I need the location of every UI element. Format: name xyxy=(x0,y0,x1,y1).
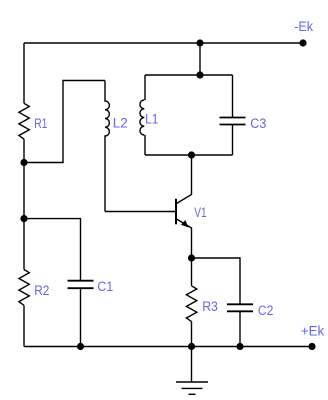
svg-text:V1: V1 xyxy=(194,205,206,220)
wire: junction right, up and over to L2 xyxy=(24,81,105,163)
svg-text:C2: C2 xyxy=(258,303,274,318)
wire: tank right upper to C3 xyxy=(232,75,234,118)
capacitor C3 xyxy=(220,118,246,125)
resistor R1 xyxy=(19,103,29,139)
wire: tank bottom side xyxy=(145,154,233,156)
wire: left branch from rail to R1 xyxy=(23,43,25,103)
wire: top supply rail -Ek xyxy=(24,42,303,44)
svg-text:L2: L2 xyxy=(113,116,128,131)
svg-text:R2: R2 xyxy=(34,283,49,298)
wire: emitter junction to R3 xyxy=(191,258,193,286)
wire: rail drop from top junction to tank top xyxy=(199,43,201,75)
svg-text:-Ek: -Ek xyxy=(294,19,313,34)
wire: tank left lower xyxy=(144,135,146,155)
inductor L2 xyxy=(105,81,109,212)
junction: C2 on bottom rail xyxy=(236,343,243,350)
transistor V1 base bar xyxy=(175,199,177,225)
node: R1/R2/L2 junction xyxy=(20,159,27,166)
wire: R1 bottom to R2 top xyxy=(23,139,25,269)
svg-text:C3: C3 xyxy=(250,116,266,131)
transistor V1 emitter arrow xyxy=(181,220,189,228)
junction: C1 on bottom rail xyxy=(77,343,84,350)
node: C1 branch junction xyxy=(20,215,27,222)
svg-text:L1: L1 xyxy=(145,112,158,127)
svg-text:+Ek: +Ek xyxy=(301,323,325,338)
transistor V1 emitter lead xyxy=(177,219,192,258)
node: tank bottom junction to collector xyxy=(188,151,195,158)
junction: R3/ground on bottom rail xyxy=(188,343,195,350)
svg-text:C1: C1 xyxy=(97,279,113,294)
node: emitter junction xyxy=(188,254,195,261)
ground xyxy=(176,347,208,395)
capacitor C1 xyxy=(68,281,94,289)
wire: C1 bottom to rail xyxy=(80,288,82,346)
wire: C2 bottom to rail xyxy=(239,311,241,346)
wire: bottom supply rail +Ek xyxy=(24,346,312,348)
wire: junction to C1 top xyxy=(24,219,81,281)
wire: R2 bottom to rail xyxy=(23,305,25,346)
node: tank top junction xyxy=(196,71,203,78)
wire: base lead from L2 to V1 xyxy=(105,211,176,213)
wire: C3 bottom to tank bottom xyxy=(232,125,234,156)
resistor R3 xyxy=(186,286,196,322)
junction: top rail to tank xyxy=(196,39,203,46)
svg-text:R1: R1 xyxy=(34,116,47,131)
svg-text:R3: R3 xyxy=(202,299,218,314)
wire: R3 bottom to rail xyxy=(191,322,193,347)
inductor L1 xyxy=(140,100,144,135)
wire: tank left upper xyxy=(144,75,146,100)
wire: tank top side xyxy=(145,74,233,76)
wire: emitter junction right to C2 xyxy=(192,258,241,304)
terminal dot +Ek xyxy=(308,343,315,350)
capacitor C2 xyxy=(227,304,253,311)
resistor R2 xyxy=(19,270,29,306)
wire: collector lead xyxy=(177,155,192,204)
terminal dot -Ek xyxy=(299,39,306,46)
